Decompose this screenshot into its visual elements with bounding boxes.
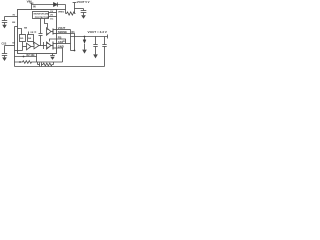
coupling bar — [43, 42, 45, 49]
capacitor C4 — [95, 37, 97, 45]
pin C wire — [57, 39, 66, 44]
svg-text:OC: OC — [50, 18, 54, 20]
svg-text:VOUT = 3.3 V: VOUT = 3.3 V — [88, 30, 108, 34]
wire A3 out — [51, 31, 53, 33]
svg-text:EN: EN — [12, 22, 15, 24]
wire A2 input stub — [33, 42, 36, 45]
wire left vertical — [14, 27, 16, 67]
wire rail corner down — [65, 5, 67, 14]
svg-text:MONITOR AND: MONITOR AND — [34, 12, 50, 15]
svg-text:OV: OV — [50, 11, 54, 13]
wire Q1 lower — [53, 33, 57, 35]
IC U1 outline — [18, 10, 57, 54]
capacitor C3 comp — [40, 19, 42, 34]
capacitor C2 input left — [4, 17, 6, 21]
wire FB pin down — [36, 54, 38, 63]
ground arrow input — [2, 25, 7, 29]
svg-text:VR: VR — [30, 32, 33, 34]
capacitor C7 output left — [4, 46, 6, 54]
capacitor C1 — [83, 9, 85, 11]
ground arrow C4 — [93, 54, 98, 58]
output rail — [71, 36, 108, 38]
svg-text:SS: SS — [12, 43, 15, 45]
ground arrow IC — [52, 54, 54, 56]
output bar Q1 — [52, 29, 54, 35]
op-amp A2 — [34, 42, 39, 49]
terminal tick right — [107, 35, 109, 39]
junction dot rail — [84, 36, 86, 38]
op-amp A3 — [47, 28, 52, 36]
wire pin C riser — [50, 39, 57, 42]
svg-text:UV: UV — [50, 15, 54, 17]
wire top rail — [32, 4, 66, 6]
resistor R3 — [15, 61, 63, 64]
wire cap to vertical — [5, 45, 15, 47]
block reference box2 — [28, 35, 34, 42]
pin D wire — [57, 43, 71, 45]
wire A1 to A2 — [31, 45, 34, 47]
svg-text:VREG: VREG — [58, 11, 64, 13]
svg-text:IN: IN — [33, 6, 36, 9]
capacitor C5 — [104, 37, 106, 45]
ground rail — [15, 66, 105, 68]
capacitor C6 — [39, 63, 41, 67]
wire box2 top — [28, 32, 30, 35]
input marks A3 — [47, 28, 48, 31]
wire input cap to IC — [5, 16, 18, 18]
svg-text:R2 10k: R2 10k — [27, 54, 36, 57]
svg-text:EA: EA — [28, 37, 31, 40]
svg-text:SB: SB — [24, 28, 27, 30]
pin E wire — [57, 48, 63, 62]
op-amp A1 — [27, 43, 32, 50]
wire box1 down to amp input — [22, 42, 24, 51]
wire left pin stub — [15, 26, 18, 28]
ground arrow top right — [81, 15, 86, 19]
resistor R1 top — [66, 12, 76, 15]
ground arrow bottom left — [2, 57, 7, 61]
output bar Q2 — [52, 42, 54, 50]
wire Q2 upper — [53, 43, 57, 45]
junction dot ground — [19, 61, 21, 63]
input marks A4 — [47, 42, 48, 45]
wire monitor to edge pins — [49, 12, 57, 14]
svg-text:CSS: CSS — [2, 44, 7, 46]
pin A wire — [57, 29, 71, 31]
driver A4 — [47, 42, 52, 49]
zener D2 — [84, 37, 86, 41]
svg-text:C: C — [35, 31, 37, 34]
wire Q2 lower — [53, 47, 57, 49]
junction dot — [74, 50, 76, 52]
pin B wire — [57, 34, 75, 51]
VOUT terminal — [73, 2, 77, 4]
diode D1 — [54, 3, 58, 7]
wire internal bias — [18, 29, 22, 35]
wire branch to bypass cap — [75, 8, 84, 10]
resistor R4 — [43, 63, 54, 66]
ground arrow mid — [82, 50, 87, 54]
wire stub to IC corner — [57, 9, 66, 11]
svg-text:BG: BG — [20, 38, 23, 40]
wire A2 out — [39, 45, 47, 47]
wire FB lower — [15, 56, 37, 58]
wire bias to A3 — [45, 19, 48, 28]
VIN terminal — [30, 2, 34, 4]
svg-text:VOUT 5 V: VOUT 5 V — [77, 0, 90, 4]
wire VIN down — [31, 3, 33, 9]
svg-text:PROTECTION: PROTECTION — [35, 17, 50, 19]
block reference box1 — [20, 35, 26, 42]
wire Q1 upper — [53, 29, 57, 31]
parallel RC loop — [37, 62, 39, 65]
monitor and protection block — [33, 12, 49, 19]
